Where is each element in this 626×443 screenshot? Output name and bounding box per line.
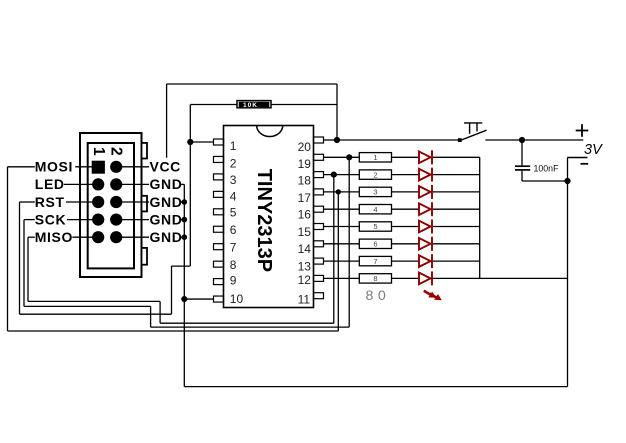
connector J1 pin 8 <box>110 214 122 226</box>
LED D6 <box>419 237 432 251</box>
wire GND bus to IC pin 10 <box>184 298 213 300</box>
junction GND row3 <box>182 199 188 205</box>
wire GND bus vertical down to bottom rail <box>183 184 185 386</box>
wire VCC top rail <box>167 83 337 85</box>
wire MISO vertical at far left <box>27 237 29 301</box>
junction MISO / pin18 <box>331 172 337 178</box>
IC U1 pin 16 stub <box>314 206 324 212</box>
connector J1 key tab top <box>142 143 148 159</box>
wire LED D8 cathode to battery negative column <box>433 277 568 279</box>
wire MOSI bottom horizontal <box>8 330 339 332</box>
wire capacitor C1 top lead <box>521 140 523 165</box>
svg-text:2: 2 <box>108 147 125 156</box>
wire IC pin 12 to resistor R8 <box>324 277 360 279</box>
IC U1 pin 13 stub <box>314 258 324 264</box>
connector J1 pin 10 <box>110 231 122 243</box>
wire 10K left lead <box>190 104 237 106</box>
junction capacitor top <box>519 137 525 143</box>
wire resistor R7 to LED D7 <box>392 260 420 262</box>
switch S1 blade <box>460 130 487 140</box>
junction GND row5 <box>182 234 188 240</box>
svg-text:7: 7 <box>373 257 377 266</box>
wire pin20 node to switch <box>337 139 460 141</box>
svg-text:3: 3 <box>373 188 377 197</box>
svg-text:14: 14 <box>298 242 312 256</box>
wire SCK bottom horizontal <box>151 326 350 328</box>
IC U1 pin 15 stub <box>314 224 324 230</box>
resistor R6 body <box>359 239 391 248</box>
IC U1 pin 11 stub <box>314 293 324 299</box>
LED D2 <box>419 168 432 182</box>
svg-text:16: 16 <box>298 208 312 222</box>
svg-text:TINY2313P: TINY2313P <box>253 169 275 272</box>
connector J1 pin 6 <box>110 196 122 208</box>
resistor R1 body <box>359 153 391 162</box>
wire resistor R6 to LED D6 <box>392 243 420 245</box>
wire SCK label to pin7 <box>24 219 35 221</box>
wire GND row4 stub <box>181 219 185 221</box>
junction MOSI / pin17 <box>336 189 341 194</box>
wire VCC label up to top rail <box>166 84 168 158</box>
connector J1 pin 3 <box>92 178 104 190</box>
IC U1 pin 17 stub <box>314 189 324 195</box>
battery BT1 negative terminal <box>567 157 587 159</box>
svg-text:6: 6 <box>230 223 237 237</box>
wire LED label to pin3 <box>64 183 98 185</box>
svg-text:13: 13 <box>298 259 312 273</box>
wire battery negative down to ground rail <box>567 158 569 387</box>
battery BT1 plus sign <box>576 124 589 137</box>
resistor R3 body <box>359 187 391 196</box>
wire switch S1 to battery + <box>485 139 583 141</box>
wire IC pin20 to node <box>324 139 337 141</box>
wire IC pin 16 to resistor R4 <box>324 208 360 210</box>
svg-text:GND: GND <box>150 229 183 245</box>
wire pin1 node to IC pin 1 <box>190 141 213 143</box>
IC U1 pin 6 stub <box>214 226 224 232</box>
wire LED D1 cathode to bus <box>433 156 480 158</box>
wire LED cathode bus <box>479 157 481 278</box>
svg-text:1: 1 <box>90 147 107 156</box>
junction VCC / pin20 <box>334 137 340 143</box>
connector J1 shroud outer box <box>80 133 142 277</box>
svg-text:5: 5 <box>373 222 377 231</box>
IC U1 pin 20 stub <box>314 137 324 143</box>
resistor R7 body <box>359 256 391 265</box>
svg-text:12: 12 <box>298 273 312 287</box>
wire MOSI riser to pin17 <box>337 192 339 331</box>
svg-text:10K: 10K <box>243 102 258 109</box>
IC U1 pin 7 stub <box>214 244 224 250</box>
battery BT1 minus sign <box>581 163 589 165</box>
LED D4 <box>419 202 432 216</box>
switch S1 left contact <box>458 138 462 142</box>
svg-text:8 0: 8 0 <box>366 288 387 304</box>
wire MOSI label to pin1 <box>8 166 35 168</box>
capacitor C1 <box>515 166 530 170</box>
wire IC pin 14 to resistor R6 <box>324 243 360 245</box>
wire LED D4 cathode to bus <box>433 208 480 210</box>
wire resistor R2 to LED D2 <box>392 174 420 176</box>
wire GND bus elbow from GND row2 <box>181 183 185 185</box>
wire RST vertical at far left <box>19 202 21 314</box>
resistor R5 body <box>359 222 391 231</box>
wire GND row5 stub <box>181 236 185 238</box>
svg-text:8: 8 <box>373 274 377 283</box>
wire SCK horizontal <box>24 305 151 307</box>
junction battery negative / capacitor <box>564 178 570 184</box>
wire RST to pin1 column <box>172 265 191 267</box>
svg-text:GND: GND <box>150 211 183 227</box>
wire LED D3 cathode to bus <box>433 191 480 193</box>
svg-text:19: 19 <box>298 157 312 171</box>
wire 10K right lead <box>271 104 337 106</box>
wire MISO label to pin9 <box>28 236 35 238</box>
resistor R2 body <box>359 170 391 179</box>
IC U1 pin 12 stub <box>314 275 324 281</box>
svg-text:9: 9 <box>230 273 237 287</box>
wire capacitor C1 bottom lead <box>521 171 523 181</box>
svg-text:GND: GND <box>150 194 183 210</box>
IC U1 pin 3 stub <box>214 174 224 180</box>
wire resistor R8 to LED D8 <box>392 277 420 279</box>
IC U1 TINY2313P body <box>224 126 314 308</box>
wire SCK riser to pin19 <box>348 157 350 327</box>
connector J1 pin 1 (square) <box>92 161 104 173</box>
connector J1 pin 2 <box>110 161 122 173</box>
svg-text:5: 5 <box>230 206 237 220</box>
svg-text:11: 11 <box>298 293 311 307</box>
wire RST bottom horizontal <box>20 313 172 315</box>
svg-text:4: 4 <box>373 205 377 214</box>
wire SCK vertical at far left <box>23 220 25 307</box>
svg-text:7: 7 <box>230 241 237 255</box>
LED D3 <box>419 185 432 199</box>
svg-text:18: 18 <box>298 174 312 188</box>
wire MISO bottom horizontal <box>160 322 334 324</box>
connector J1 key tab middle <box>142 196 148 212</box>
wire top rail down to pin20 node <box>336 84 338 140</box>
wire GND row3 stub <box>181 201 185 203</box>
svg-text:4: 4 <box>230 189 237 203</box>
svg-text:LED: LED <box>35 176 65 192</box>
wire IC pin 13 to resistor R7 <box>324 260 360 262</box>
IC U1 pin 5 stub <box>214 209 224 215</box>
wire RST label to pin5 <box>20 201 35 203</box>
resistor R9 10K body <box>237 101 271 108</box>
wire IC pin 17 to resistor R3 <box>324 191 360 193</box>
LED D7 <box>419 254 432 268</box>
wire resistor R4 to LED D4 <box>392 208 420 210</box>
wire resistor R3 to LED D3 <box>392 191 420 193</box>
resistor R8 body <box>359 274 391 283</box>
LED D8 <box>419 271 432 285</box>
wire pin 4 to GND label <box>116 183 149 185</box>
wire LED D7 cathode to bus <box>433 260 480 262</box>
svg-text:20: 20 <box>298 140 312 154</box>
IC U1 pin 2 stub <box>214 156 224 162</box>
LED D5 <box>419 220 432 234</box>
svg-text:VCC: VCC <box>150 159 181 175</box>
junction GND bus / IC pin10 <box>181 296 187 302</box>
svg-text:1: 1 <box>230 139 237 153</box>
connector J1 pin 5 <box>92 196 104 208</box>
wire SCK jog down <box>150 306 152 327</box>
wire MISO riser to pin18 <box>333 175 335 324</box>
resistor R4 body <box>359 205 391 214</box>
wire IC pin 19 to resistor R1 <box>324 156 360 158</box>
IC U1 pin 4 stub <box>214 191 224 197</box>
svg-text:6: 6 <box>373 240 377 249</box>
IC U1 pin 10 stub <box>214 296 224 302</box>
IC U1 pin 14 stub <box>314 241 324 247</box>
wire MISO jog down <box>159 301 161 323</box>
wire capacitor C1 to battery negative <box>522 180 568 182</box>
wire LED D2 cathode to bus <box>433 174 480 176</box>
wire RST riser <box>171 266 173 314</box>
junction SCK / pin19 <box>346 154 352 160</box>
wire 10K left lead vertical to pin1 node <box>189 105 191 267</box>
IC U1 notch <box>257 126 283 137</box>
connector J1 inner box <box>88 143 134 268</box>
wire resistor R5 to LED D5 <box>392 226 420 228</box>
connector J1 pin 4 <box>110 178 122 190</box>
LED D1 <box>419 150 432 164</box>
junction GND row4 <box>182 217 188 223</box>
IC U1 pin 1 stub <box>214 139 224 145</box>
IC U1 pin 8 stub <box>214 261 224 267</box>
svg-text:15: 15 <box>298 225 312 239</box>
svg-text:10: 10 <box>230 292 244 306</box>
IC U1 pin 18 stub <box>314 172 324 178</box>
svg-text:MISO: MISO <box>35 229 73 245</box>
wire pin 10 to GND label <box>116 236 149 238</box>
svg-text:3V: 3V <box>584 142 603 158</box>
svg-text:8: 8 <box>230 258 237 272</box>
switch S1 actuator <box>464 123 482 134</box>
svg-text:17: 17 <box>298 191 312 205</box>
svg-text:GND: GND <box>150 176 183 192</box>
connector J1 key tab bottom <box>142 248 148 265</box>
junction pin1 / RST / 10K <box>187 139 193 145</box>
wire LED D5 cathode to bus <box>433 226 480 228</box>
svg-text:2: 2 <box>230 157 237 171</box>
wire pin 8 to GND label <box>116 219 149 221</box>
svg-text:SCK: SCK <box>35 211 66 227</box>
connector J1 pin 7 <box>92 214 104 226</box>
svg-text:1: 1 <box>373 153 377 162</box>
svg-text:100nF: 100nF <box>534 163 560 173</box>
wire pin2 to VCC label <box>116 166 149 168</box>
IC U1 pin 19 stub <box>314 154 324 160</box>
svg-text:RST: RST <box>35 194 65 210</box>
wire IC pin 15 to resistor R5 <box>324 226 360 228</box>
IC U1 pin 9 stub <box>214 279 224 285</box>
LED light emission arrows <box>424 291 442 300</box>
svg-text:MOSI: MOSI <box>35 159 73 175</box>
wire pin 6 to GND label <box>116 201 149 203</box>
connector J1 pin 9 <box>92 231 104 243</box>
wire ground bottom rail <box>184 386 567 388</box>
wire resistor R1 to LED D1 <box>392 156 420 158</box>
wire IC pin 18 to resistor R2 <box>324 174 360 176</box>
wire LED D6 cathode to bus <box>433 243 480 245</box>
svg-text:3: 3 <box>230 173 237 187</box>
wire MISO horizontal <box>28 300 160 302</box>
wire MOSI vertical at far left <box>7 167 9 331</box>
svg-text:2: 2 <box>373 170 377 179</box>
